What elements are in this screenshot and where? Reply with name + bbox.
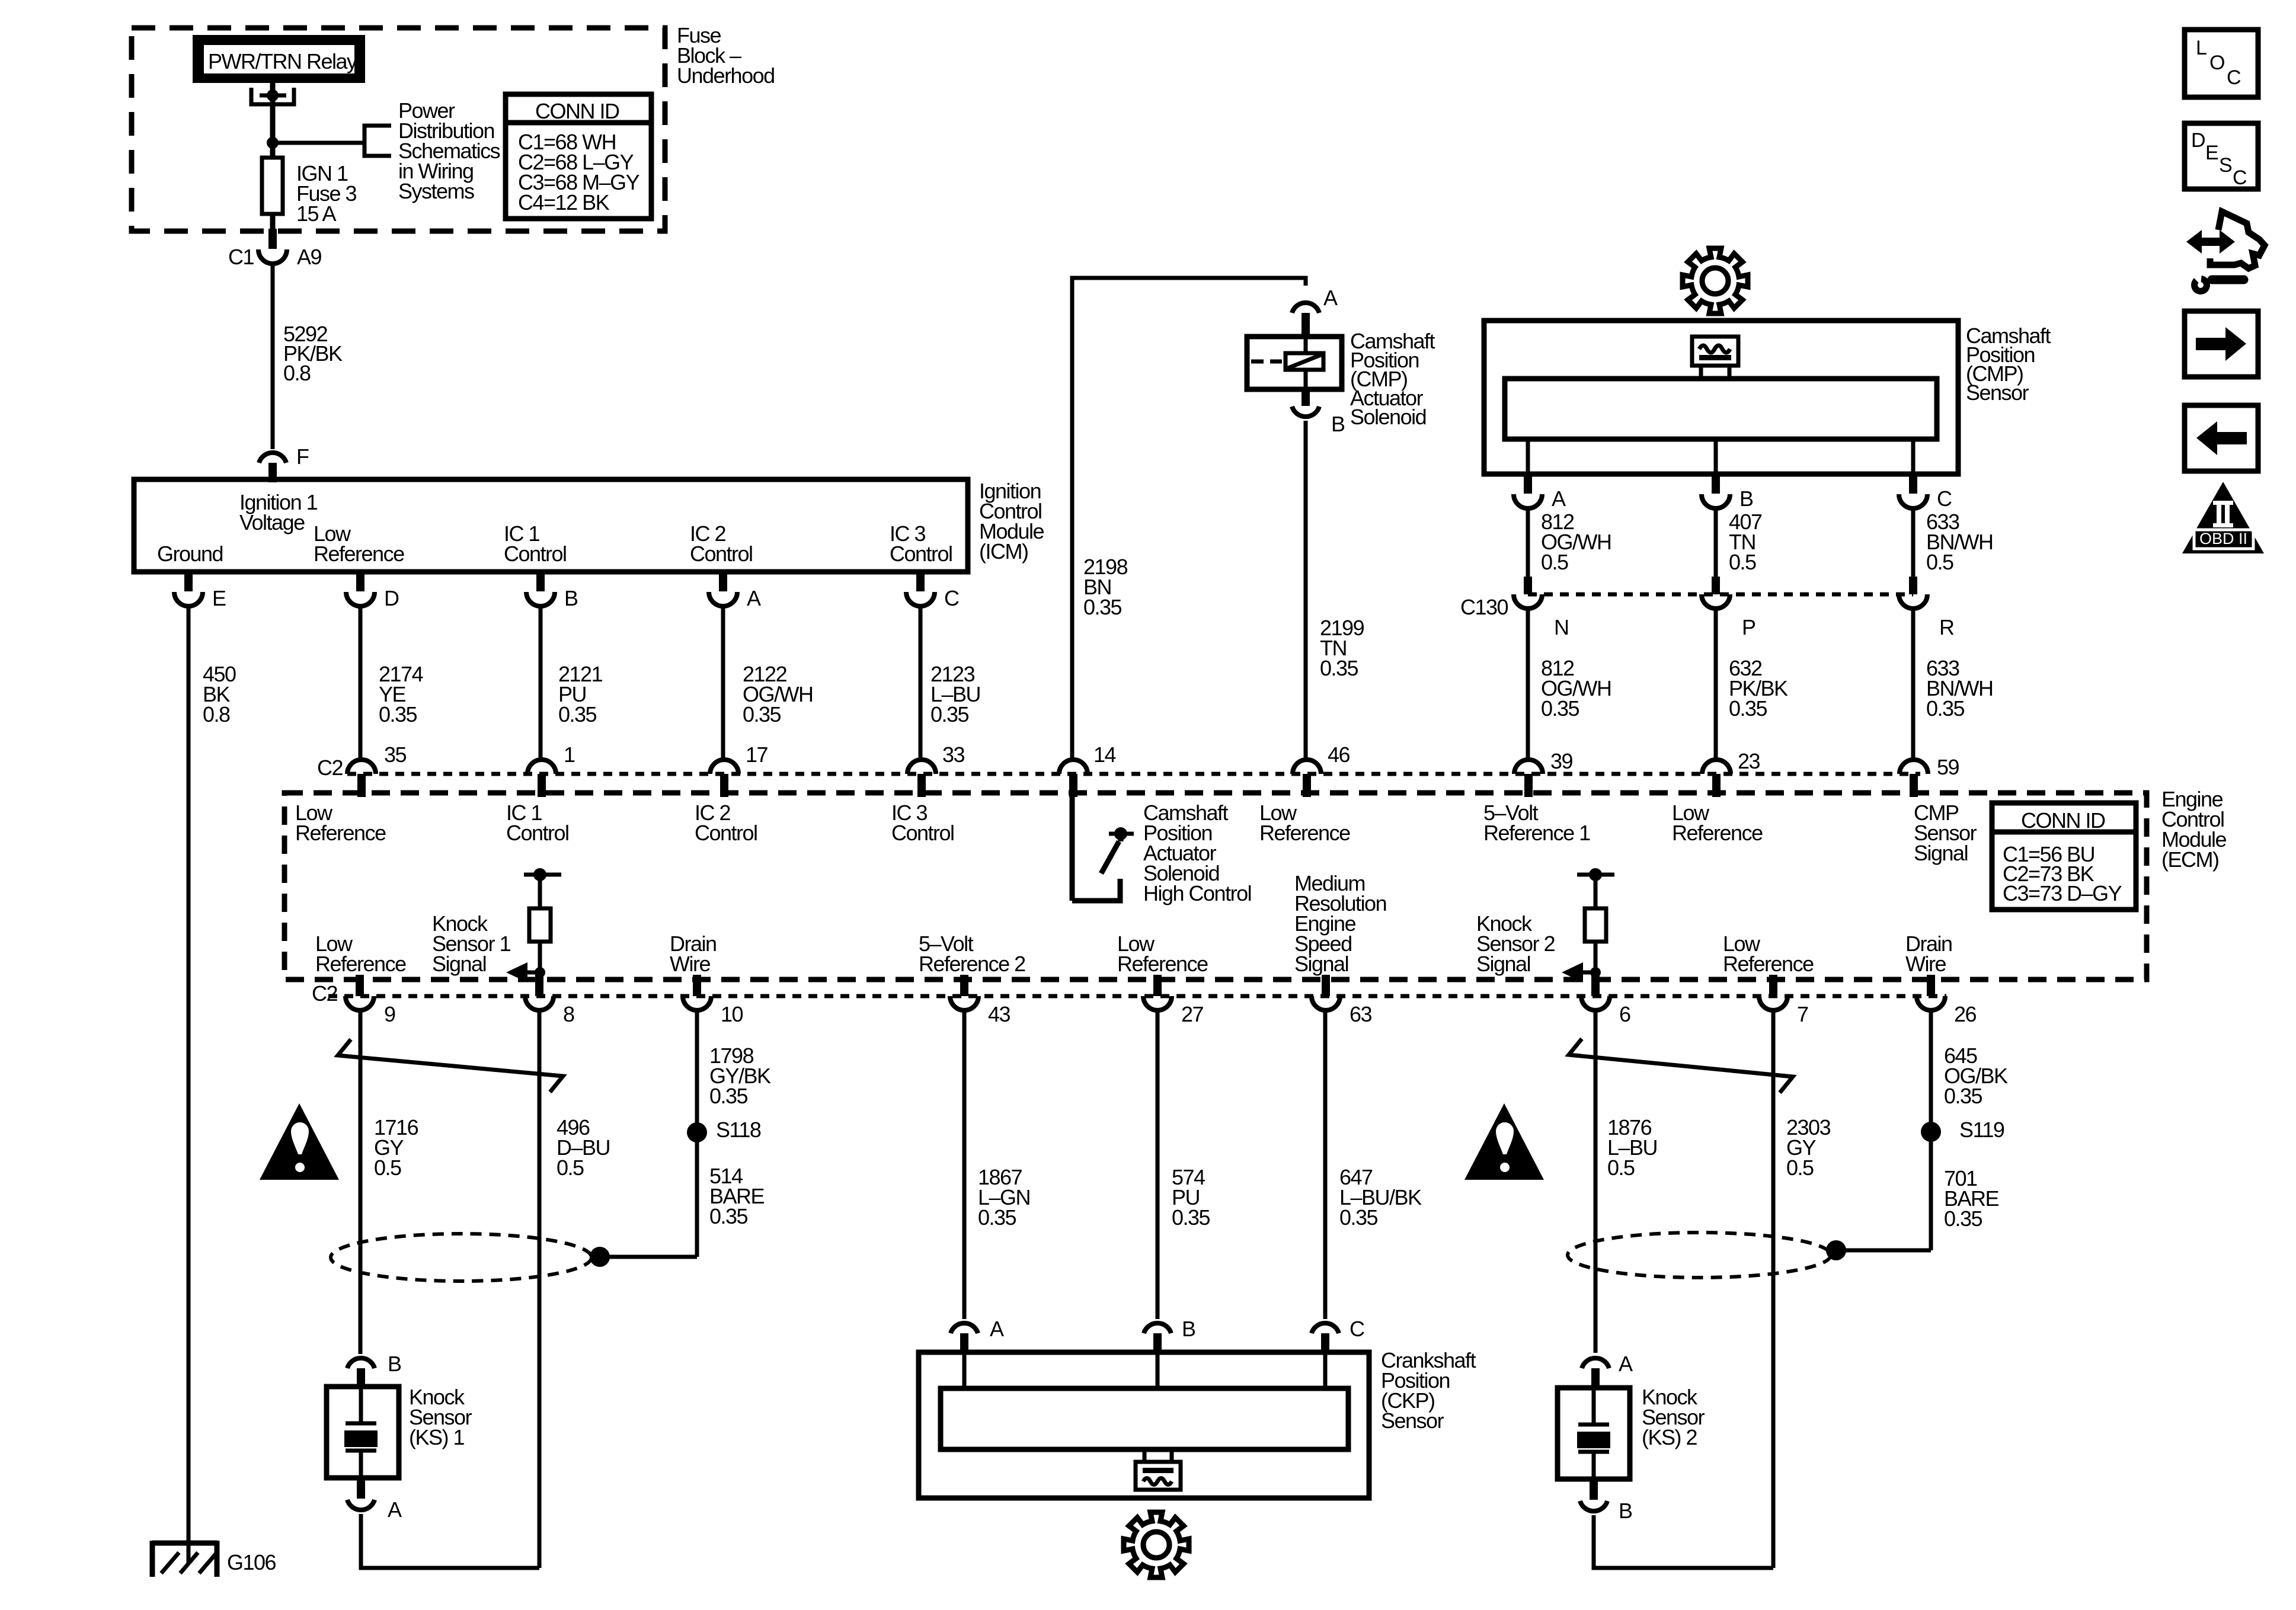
KS2 pin A xyxy=(1582,1352,1633,1388)
CONN ID table (fuse block) xyxy=(506,94,651,219)
icon left arrow box xyxy=(2185,405,2258,471)
ECM C2 connector line row 2 xyxy=(328,994,1946,998)
KS2 pin B xyxy=(1580,1479,1632,1523)
ICM pin E xyxy=(174,572,226,610)
svg-text:Control: Control xyxy=(506,821,569,845)
ECM pin 26 xyxy=(1917,975,1977,1026)
shield ellipse KS1 xyxy=(331,1234,591,1281)
wire 1876 L-BU 0.5 xyxy=(1595,1010,1657,1353)
svg-text:R: R xyxy=(1939,615,1954,639)
label: IC 1 Control (ICM) xyxy=(504,521,567,566)
svg-text:Sensor: Sensor xyxy=(1966,380,2029,405)
svg-text:0.35: 0.35 xyxy=(558,702,597,726)
ECM pin 9 xyxy=(346,975,395,1026)
relay K1 PWR/TRN Relay xyxy=(193,35,365,83)
label: Camshaft Position (CMP) Sensor xyxy=(1966,324,2051,405)
svg-text:C130: C130 xyxy=(1460,595,1508,619)
svg-text:Control: Control xyxy=(891,821,954,845)
svg-text:Reference: Reference xyxy=(295,821,386,845)
twisted pair slash KS1 xyxy=(338,1039,563,1092)
ECM pin 59 xyxy=(1900,755,1959,797)
svg-text:L: L xyxy=(2196,37,2207,59)
svg-text:Wire: Wire xyxy=(1905,952,1946,976)
svg-text:39: 39 xyxy=(1550,749,1573,773)
svg-text:0.5: 0.5 xyxy=(1729,550,1756,574)
CKP sensor element bar xyxy=(941,1388,1348,1449)
C130 pin R xyxy=(1899,577,1954,639)
ECM pin 7 xyxy=(1759,975,1808,1026)
relay pin T-bar xyxy=(260,94,286,98)
CMP hall element box xyxy=(1692,337,1738,379)
svg-text:0.35: 0.35 xyxy=(1944,1084,1982,1108)
shield ellipse KS2 xyxy=(1568,1233,1831,1278)
ECM pin 46 xyxy=(1293,742,1350,797)
svg-text:Signal: Signal xyxy=(1476,952,1530,976)
ECM C2 connector line row 1 xyxy=(347,772,1920,776)
wire 645 OG/BK 0.35 drain xyxy=(1931,1010,2008,1250)
wire 407 TN 0.5 xyxy=(1716,508,1762,577)
wire 1716 GY 0.5 xyxy=(360,1010,418,1354)
splice S119 xyxy=(1921,1118,2004,1142)
svg-text:0.35: 0.35 xyxy=(930,702,969,726)
ECM pin 8 xyxy=(525,975,574,1026)
svg-text:C1: C1 xyxy=(228,245,254,269)
CKP pin B xyxy=(1144,1317,1195,1353)
svg-text:8: 8 xyxy=(563,1002,574,1026)
svg-text:A: A xyxy=(1552,486,1566,511)
svg-text:A: A xyxy=(1619,1352,1633,1376)
ECM pin 6 xyxy=(1581,975,1630,1026)
wire 2121 PU 0.35 xyxy=(541,606,603,759)
svg-text:A: A xyxy=(747,586,761,610)
CMP internal wire C xyxy=(1911,439,1916,474)
CMP actuator solenoid pin A xyxy=(1292,286,1338,337)
wire branch to power distribution bracket xyxy=(273,141,364,145)
CKP pin A xyxy=(951,1317,1004,1353)
svg-text:Reference: Reference xyxy=(1672,821,1763,845)
ground G106 xyxy=(152,1541,276,1577)
CMP pin C xyxy=(1899,474,1952,511)
wire KS1 A return to pin 8 xyxy=(361,1514,539,1568)
CMP actuator solenoid pin B xyxy=(1292,389,1345,436)
label: Medium Resolution Engine Speed Signal xyxy=(1294,871,1386,976)
gear icon below CKP sensor xyxy=(1124,1512,1189,1577)
pin F into ICM xyxy=(259,444,309,482)
CKP pin C xyxy=(1312,1317,1364,1353)
warning triangle 1 xyxy=(260,1103,339,1180)
svg-text:F: F xyxy=(296,444,309,469)
svg-text:Reference: Reference xyxy=(314,542,404,566)
svg-text:0.5: 0.5 xyxy=(557,1156,584,1180)
label: Low Reference (pin27) xyxy=(1117,932,1208,976)
label: IC 3 Control (pin33) xyxy=(891,801,954,845)
svg-text:Signal: Signal xyxy=(1294,952,1348,976)
svg-text:0.35: 0.35 xyxy=(1083,595,1122,619)
svg-text:B: B xyxy=(564,586,578,610)
wire relay to fuse xyxy=(270,83,276,158)
label: Low Reference (pin23) xyxy=(1672,801,1763,845)
svg-text:Control: Control xyxy=(695,821,757,845)
CKP hall element box xyxy=(1136,1449,1181,1490)
ECM pin 33 xyxy=(907,742,965,797)
svg-text:0.35: 0.35 xyxy=(1729,696,1767,721)
svg-text:17: 17 xyxy=(746,742,768,767)
KS1 pin B xyxy=(347,1352,401,1388)
svg-text:0.35: 0.35 xyxy=(1320,656,1358,680)
label: IC 1 Control (pin1) xyxy=(506,801,569,845)
svg-text:Sensor: Sensor xyxy=(1381,1409,1444,1433)
svg-text:Reference 2: Reference 2 xyxy=(919,952,1025,976)
label: IC 3 Control (ICM) xyxy=(890,521,952,566)
wire 514 BARE 0.35 xyxy=(600,1164,765,1257)
label: Ignition 1 Voltage xyxy=(239,490,318,534)
wire 496 D-BU 0.5 xyxy=(539,1010,610,1568)
svg-text:B: B xyxy=(1331,412,1345,436)
icon LOC box xyxy=(2185,30,2258,97)
svg-text:Voltage: Voltage xyxy=(239,510,305,534)
wire 633 BN/WH 0.35 xyxy=(1913,609,1993,759)
ECM pin 43 xyxy=(950,975,1011,1026)
svg-text:0.5: 0.5 xyxy=(1786,1156,1814,1180)
ECM dashed box Engine Control Module xyxy=(284,793,2147,980)
svg-text:23: 23 xyxy=(1738,749,1760,773)
svg-text:0.8: 0.8 xyxy=(283,361,311,385)
svg-text:46: 46 xyxy=(1328,742,1350,767)
C130 pin P xyxy=(1702,577,1755,639)
svg-text:C2: C2 xyxy=(312,981,337,1006)
svg-text:9: 9 xyxy=(384,1002,395,1026)
wire 1798 GY/BK 0.35 drain xyxy=(697,1010,771,1257)
splice dot shield KS2 xyxy=(1826,1240,1846,1260)
connector C130 dashed line xyxy=(1528,593,1913,597)
svg-text:C: C xyxy=(1350,1317,1364,1341)
svg-text:N: N xyxy=(1554,615,1569,639)
svg-text:C3=73 D–GY: C3=73 D–GY xyxy=(2003,881,2122,905)
svg-text:0.35: 0.35 xyxy=(1926,696,1965,721)
fuse F3 IGN 1 Fuse 3 15 A xyxy=(262,158,357,226)
svg-text:43: 43 xyxy=(988,1002,1011,1026)
svg-text:35: 35 xyxy=(384,742,407,767)
svg-text:Systems: Systems xyxy=(398,179,474,203)
wire 2303 GY 0.5 xyxy=(1773,1010,1831,1568)
label: Power Distribution Schematics in Wiring Systems xyxy=(398,98,500,203)
warning triangle 2 xyxy=(1464,1103,1544,1180)
arrow knock sensor 1 signal xyxy=(506,962,545,982)
label: IC 2 Control (ICM) xyxy=(690,521,753,566)
icon right arrow box xyxy=(2185,311,2258,377)
svg-text:Control: Control xyxy=(690,542,753,566)
label: Drain Wire (pin26) xyxy=(1905,932,1952,976)
wire 574 PU 0.35 xyxy=(1157,1010,1210,1319)
label: Fuse Block - Underhood xyxy=(677,23,775,88)
wire 1867 L-GN 0.35 xyxy=(964,1010,1030,1319)
wire 633 BN/WH 0.5 xyxy=(1913,508,1993,577)
wire 812 OG/WH 0.5 xyxy=(1528,508,1611,577)
svg-text:Reference 1: Reference 1 xyxy=(1483,821,1590,845)
svg-text:P: P xyxy=(1742,615,1755,639)
svg-text:A: A xyxy=(388,1497,402,1522)
svg-text:Reference: Reference xyxy=(1723,952,1814,976)
CKP sensor B7 Crankshaft Position Sensor box xyxy=(919,1352,1369,1498)
svg-text:0.35: 0.35 xyxy=(978,1205,1016,1230)
wire 2122 OG/WH 0.35 xyxy=(723,606,813,759)
wire 5292 PK/BK 0.8 xyxy=(273,264,343,449)
svg-text:(KS) 2: (KS) 2 xyxy=(1642,1425,1697,1449)
svg-text:6: 6 xyxy=(1619,1002,1630,1026)
ICM pin B xyxy=(526,572,578,610)
ICM pin A xyxy=(709,572,761,610)
svg-text:S: S xyxy=(2219,154,2232,177)
ECM CONN ID table xyxy=(1992,803,2136,910)
splice dot shield KS1 xyxy=(590,1247,610,1267)
svg-text:Solenoid: Solenoid xyxy=(1350,405,1426,429)
svg-text:(KS) 1: (KS) 1 xyxy=(409,1425,465,1449)
svg-text:Reference: Reference xyxy=(1259,821,1350,845)
svg-text:0.35: 0.35 xyxy=(1541,696,1579,721)
svg-text:0.35: 0.35 xyxy=(709,1084,748,1108)
ECM pin 17 xyxy=(710,742,768,797)
svg-text:C4=12 BK: C4=12 BK xyxy=(518,190,610,215)
svg-text:B: B xyxy=(388,1352,401,1376)
svg-text:0.5: 0.5 xyxy=(1926,550,1953,574)
wire 2123 L-BU 0.35 xyxy=(920,606,980,759)
ECM pin 10 xyxy=(683,975,743,1026)
ECM pin 1 xyxy=(527,742,575,797)
svg-text:E: E xyxy=(212,586,226,610)
svg-text:S118: S118 xyxy=(716,1118,761,1142)
svg-text:High Control: High Control xyxy=(1143,881,1251,905)
icon OBD II triangle xyxy=(2182,482,2264,553)
power distribution reference bracket xyxy=(364,126,391,156)
svg-text:0.35: 0.35 xyxy=(1339,1205,1378,1230)
wire KS2 B return to pin 7 xyxy=(1594,1515,1773,1568)
svg-text:C: C xyxy=(2233,167,2247,189)
svg-text:Control: Control xyxy=(504,542,567,566)
svg-text:E: E xyxy=(2205,142,2218,164)
label: Knock Sensor (KS) 1 xyxy=(409,1385,472,1449)
CMP sensor element bar xyxy=(1505,379,1937,439)
label: Low Reference (pin9) xyxy=(315,932,406,976)
svg-text:0.35: 0.35 xyxy=(1944,1206,1982,1231)
C130 pin N xyxy=(1460,577,1569,639)
wire 450 BK 0.8 ground wire xyxy=(188,606,236,1543)
wire 701 BARE 0.35 xyxy=(1836,1166,1999,1250)
svg-text:Signal: Signal xyxy=(1914,841,1968,865)
svg-text:0.5: 0.5 xyxy=(1541,550,1568,574)
gear icon above CMP sensor xyxy=(1683,248,1748,313)
ECM pin 39 xyxy=(1514,749,1573,797)
CMP pin B xyxy=(1702,474,1753,511)
solenoid L1 Camshaft Position (CMP) Actuator Solenoid xyxy=(1247,337,1342,389)
transistor switch camshaft solenoid high control driver xyxy=(1072,797,1134,901)
svg-text:7: 7 xyxy=(1797,1002,1808,1026)
svg-text:O: O xyxy=(2209,52,2224,74)
svg-text:D: D xyxy=(2191,129,2205,152)
svg-text:0.35: 0.35 xyxy=(709,1204,748,1228)
svg-text:Underhood: Underhood xyxy=(677,63,775,88)
junction dot branch xyxy=(267,137,279,149)
wire 2199 TN 0.35 xyxy=(1306,421,1364,759)
svg-text:C: C xyxy=(1937,486,1952,511)
fuse block underhood dashed box xyxy=(132,28,665,231)
ICM box Ignition Control Module xyxy=(134,479,968,572)
svg-text:33: 33 xyxy=(942,742,965,767)
svg-text:1: 1 xyxy=(564,742,575,767)
arrow knock sensor 2 signal xyxy=(1562,962,1601,982)
label: 5-Volt Reference 2 xyxy=(919,932,1025,976)
CMP sensor B8 Camshaft Position Sensor box xyxy=(1484,321,1958,474)
label: Camshaft Position (CMP) Actuator Solenoid xyxy=(1350,329,1435,429)
svg-text:Reference: Reference xyxy=(1117,952,1208,976)
label: Knock Sensor 1 Signal xyxy=(432,911,511,976)
CMP pin A xyxy=(1514,474,1566,511)
svg-text:10: 10 xyxy=(721,1002,743,1026)
svg-text:15 A: 15 A xyxy=(296,201,337,226)
label: Engine Control Module (ECM) xyxy=(2161,787,2227,872)
label: Knock Sensor 2 Signal xyxy=(1476,911,1555,976)
icon electrical diagnosis (arrow + wrench) xyxy=(2186,212,2265,295)
label: Crankshaft Position (CKP) Sensor xyxy=(1381,1348,1476,1433)
wire 647 L-BU/BK 0.35 xyxy=(1325,1010,1422,1319)
ECM pin 63 xyxy=(1312,975,1372,1026)
label: Knock Sensor (KS) 2 xyxy=(1642,1385,1705,1449)
junction dot at relay pin xyxy=(267,89,279,101)
svg-text:0.5: 0.5 xyxy=(374,1156,401,1180)
label: 5-Volt Reference 1 xyxy=(1483,801,1590,845)
svg-text:CONN ID: CONN ID xyxy=(2021,808,2105,833)
resistor R2 knock sensor 2 pull-up xyxy=(1577,868,1614,977)
svg-text:27: 27 xyxy=(1181,1002,1204,1026)
label: Low Reference (ICM) xyxy=(314,521,404,566)
knock sensor KS2 box xyxy=(1558,1388,1630,1479)
svg-text:14: 14 xyxy=(1093,742,1116,767)
svg-text:0.35: 0.35 xyxy=(1172,1205,1210,1230)
ICM pin C xyxy=(906,572,959,610)
svg-text:S119: S119 xyxy=(1959,1118,2004,1142)
svg-text:CONN ID: CONN ID xyxy=(535,99,619,123)
ICM pin D xyxy=(346,572,399,610)
label: Camshaft Position Actuator Solenoid High Control xyxy=(1143,801,1251,905)
svg-text:0.35: 0.35 xyxy=(743,702,781,726)
wire 2174 YE 0.35 xyxy=(360,606,423,759)
svg-text:B: B xyxy=(1739,486,1753,511)
wire fuse to C1 xyxy=(270,214,276,249)
svg-text:Reference: Reference xyxy=(315,952,406,976)
CMP internal wire B xyxy=(1714,439,1718,474)
label: Low Reference (pin7) xyxy=(1723,932,1814,976)
svg-text:D: D xyxy=(384,586,399,610)
svg-text:A9: A9 xyxy=(297,245,322,269)
wire 2198 BN 0.35 solenoid high control feed xyxy=(1072,278,1306,759)
svg-text:59: 59 xyxy=(1937,755,1959,779)
svg-text:G106: G106 xyxy=(227,1550,276,1574)
svg-text:A: A xyxy=(1323,286,1338,310)
label: IC 2 Control (pin17) xyxy=(695,801,757,845)
svg-text:(ICM): (ICM) xyxy=(979,539,1028,564)
icon DESC box xyxy=(2185,123,2258,189)
CMP internal wire A xyxy=(1526,439,1530,474)
svg-text:C: C xyxy=(944,586,959,610)
label: Low Reference (pin46) xyxy=(1259,801,1350,845)
svg-text:C2: C2 xyxy=(317,756,343,780)
svg-text:63: 63 xyxy=(1350,1002,1372,1026)
connector C1 pin A9 xyxy=(228,229,322,269)
label: CMP Sensor Signal xyxy=(1914,801,1977,865)
twisted pair slash KS2 xyxy=(1569,1039,1793,1093)
wire 812 OG/WH 0.35 xyxy=(1528,609,1611,759)
splice S118 xyxy=(687,1118,761,1142)
KS1 pin A xyxy=(347,1478,402,1522)
svg-text:26: 26 xyxy=(1954,1002,1977,1026)
svg-text:Control: Control xyxy=(890,542,952,566)
label: Drain Wire (pin10) xyxy=(670,932,717,976)
ECM pin 14 xyxy=(1059,742,1116,797)
svg-text:0.8: 0.8 xyxy=(203,702,230,726)
knock sensor KS1 box xyxy=(327,1387,399,1478)
relay pin socket bracket xyxy=(251,88,294,104)
svg-text:OBD II: OBD II xyxy=(2199,530,2247,548)
svg-text:Ground: Ground xyxy=(157,542,223,566)
svg-text:A: A xyxy=(990,1317,1004,1341)
wire 632 PK/BK 0.35 xyxy=(1716,609,1788,759)
svg-text:B: B xyxy=(1619,1499,1632,1523)
svg-text:C: C xyxy=(2227,66,2241,89)
ECM pin 23 xyxy=(1702,749,1760,797)
svg-text:Wire: Wire xyxy=(670,952,710,976)
svg-text:0.35: 0.35 xyxy=(379,702,417,726)
svg-text:B: B xyxy=(1182,1317,1195,1341)
svg-text:0.5: 0.5 xyxy=(1607,1156,1635,1180)
label: Low Reference (pin35) xyxy=(295,801,386,845)
CKP internal wires xyxy=(964,1352,1325,1388)
label: Ignition Control Module (ICM) xyxy=(979,479,1044,564)
resistor R1 knock sensor 1 pull-up xyxy=(524,868,561,977)
ECM pin 35 xyxy=(347,742,407,797)
ECM pin 27 xyxy=(1143,975,1204,1026)
svg-text:PWR/TRN Relay: PWR/TRN Relay xyxy=(208,49,357,73)
svg-text:(ECM): (ECM) xyxy=(2161,847,2218,872)
svg-text:Signal: Signal xyxy=(432,952,486,976)
